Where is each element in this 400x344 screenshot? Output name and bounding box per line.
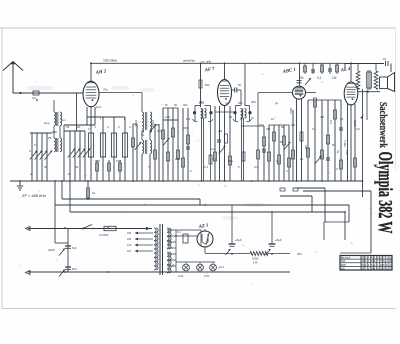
svg-text:+6,3: +6,3: [219, 266, 225, 269]
svg-text:1M: 1M: [304, 145, 308, 150]
svg-text:464: 464: [251, 100, 256, 104]
svg-text:25: 25: [48, 136, 52, 140]
svg-text:50: 50: [238, 83, 241, 87]
svg-text:464: 464: [238, 101, 243, 105]
svg-text:0,1: 0,1: [262, 147, 266, 151]
svg-text:Trafo: Trafo: [343, 140, 347, 147]
svg-text:0,5: 0,5: [291, 123, 295, 127]
svg-text:50k: 50k: [228, 159, 233, 163]
svg-text:35V: 35V: [297, 252, 302, 256]
svg-text:10: 10: [383, 57, 387, 61]
svg-text:0,2: 0,2: [211, 147, 215, 151]
svg-text:50k: 50k: [205, 83, 210, 87]
svg-text:Ant: Ant: [32, 96, 36, 100]
svg-text:30: 30: [44, 165, 48, 169]
svg-text:LW: LW: [341, 266, 345, 270]
svg-text:rot, gelb: rot, gelb: [201, 60, 212, 64]
svg-text:125: 125: [127, 244, 132, 247]
svg-text:kurz: kurz: [96, 105, 102, 109]
svg-text:500: 500: [52, 130, 57, 134]
svg-text:0,1: 0,1: [157, 129, 161, 133]
svg-text:5nF: 5nF: [72, 246, 77, 250]
svg-text:1W: 1W: [186, 117, 191, 121]
svg-text:0,5: 0,5: [240, 117, 244, 121]
svg-text:rot: rot: [225, 101, 229, 105]
svg-text:0,1: 0,1: [312, 127, 316, 131]
svg-text:0,3: 0,3: [254, 165, 258, 169]
svg-text:0,2: 0,2: [356, 127, 360, 131]
svg-text:4M: 4M: [320, 115, 325, 119]
svg-text:464: 464: [199, 100, 204, 104]
svg-text:1k: 1k: [92, 191, 96, 195]
svg-text:25: 25: [66, 125, 70, 129]
svg-text:50m: 50m: [289, 108, 293, 114]
svg-text:gelb/blau: gelb/blau: [183, 59, 196, 63]
svg-text:30: 30: [77, 125, 81, 129]
svg-text:1500: 1500: [134, 120, 138, 127]
svg-text:100: 100: [116, 159, 121, 163]
svg-text:464: 464: [183, 103, 188, 107]
svg-text:100: 100: [259, 123, 264, 127]
svg-text:220: 220: [127, 238, 132, 241]
svg-text:50: 50: [332, 143, 336, 147]
svg-text:0,1: 0,1: [276, 159, 281, 163]
svg-text:6,3V: 6,3V: [204, 274, 210, 278]
svg-text:70s: 70s: [103, 88, 108, 92]
svg-text:250Ω: 250Ω: [252, 257, 259, 261]
svg-text:23: 23: [389, 266, 393, 270]
svg-text:100: 100: [165, 115, 170, 119]
svg-text:25: 25: [340, 117, 344, 121]
svg-text:Olympia 382 W: Olympia 382 W: [374, 152, 396, 234]
svg-text:220V: 220V: [48, 248, 55, 252]
svg-text:0,1: 0,1: [317, 76, 322, 80]
svg-text:0,1/250: 0,1/250: [99, 233, 109, 237]
svg-text:50: 50: [300, 76, 304, 80]
svg-text:50: 50: [229, 115, 233, 119]
svg-text:0,1: 0,1: [177, 230, 181, 234]
svg-text:110: 110: [127, 250, 132, 253]
svg-text:+8μF: +8μF: [235, 238, 242, 242]
svg-text:7k: 7k: [336, 150, 340, 154]
svg-text:50: 50: [141, 133, 145, 137]
svg-text:An: An: [62, 118, 66, 122]
svg-text:5nF: 5nF: [72, 267, 77, 271]
svg-text:240: 240: [127, 232, 132, 235]
svg-text:100, blau: 100, blau: [103, 59, 117, 63]
svg-text:50: 50: [281, 125, 285, 129]
svg-text:0,1: 0,1: [204, 165, 208, 169]
svg-text:1M: 1M: [332, 76, 337, 80]
svg-text:ZF = 468 kHz: ZF = 468 kHz: [21, 193, 46, 198]
svg-text:+8μF: +8μF: [275, 238, 282, 242]
svg-text:0,1: 0,1: [212, 157, 217, 161]
svg-text:lang: lang: [44, 121, 50, 125]
svg-text:gn: gn: [275, 101, 279, 105]
svg-text:100: 100: [95, 159, 100, 163]
svg-text:Sachsenwerk: Sachsenwerk: [377, 102, 389, 149]
svg-text:2M: 2M: [266, 127, 271, 131]
svg-text:II: II: [124, 117, 126, 121]
svg-text:5 W: 5 W: [253, 262, 258, 265]
svg-text:20k: 20k: [175, 157, 180, 161]
svg-text:2M: 2M: [218, 129, 223, 133]
svg-text:1500: 1500: [151, 120, 155, 127]
svg-text:0,1: 0,1: [329, 120, 333, 125]
svg-text:0,3A: 0,3A: [178, 274, 184, 278]
svg-text:150: 150: [345, 150, 349, 155]
svg-text:40: 40: [75, 165, 79, 169]
